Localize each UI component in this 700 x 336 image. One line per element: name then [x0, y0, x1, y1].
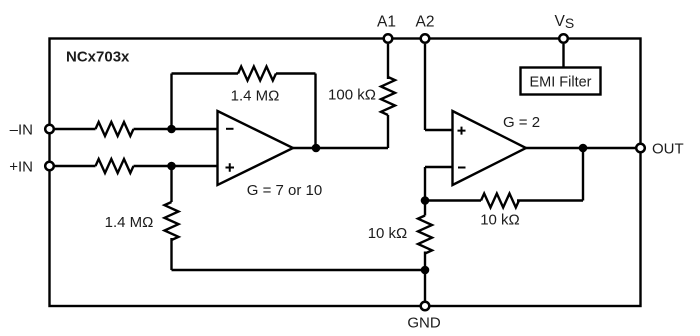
op-amp 1 minus pin mark — [226, 128, 234, 130]
svg-text:1.4 MΩ: 1.4 MΩ — [105, 214, 154, 231]
op-amp 1 (G = 7 or 10) — [218, 111, 294, 185]
resistor R-IN+ (unlabeled, +IN series) — [96, 159, 134, 173]
wire feedback riser to output — [582, 148, 584, 201]
svg-text:EMI Filter: EMI Filter — [529, 75, 591, 91]
resistor 10 kOhm (vertical, to ground) — [418, 216, 432, 254]
resistor R-IN- (unlabeled, -IN series) — [96, 122, 134, 136]
junction node op-amp 2 output — [579, 144, 588, 153]
svg-text:10 kΩ: 10 kΩ — [480, 212, 520, 229]
wire feedback node to 10k vertical top lead — [424, 201, 426, 216]
terminal A1 — [384, 34, 393, 43]
wire feedback top right segment — [276, 72, 316, 74]
terminal OUT — [636, 144, 645, 153]
wire bottom run to ground node — [172, 269, 426, 271]
svg-text:10 kΩ: 10 kΩ — [368, 225, 408, 242]
terminal GND — [421, 302, 430, 311]
wire feedback top left segment — [172, 72, 239, 74]
resistor 1.4 MOhm feedback (top) — [238, 67, 276, 81]
svg-text:OUT: OUT — [652, 141, 684, 158]
wire feedback drop to op-amp 1 output node — [314, 74, 316, 149]
svg-text:G = 2: G = 2 — [503, 114, 540, 131]
svg-text:GND: GND — [407, 315, 441, 332]
wire op-amp 2 output to OUT terminal — [526, 147, 636, 149]
svg-text:VS: VS — [555, 13, 575, 31]
resistor 10 kOhm (horizontal, feedback) — [481, 194, 519, 208]
wire inverting input drop to feedback node — [424, 167, 426, 201]
resistor 100 kOhm (vertical) — [381, 77, 395, 115]
junction node ground bus — [421, 266, 430, 275]
svg-text:G = 7 or 10: G = 7 or 10 — [247, 182, 322, 199]
wire feedback riser from -IN node — [170, 74, 172, 130]
svg-text:–IN: –IN — [10, 121, 33, 138]
wire A2 to op-amp 2 non-inverting input — [425, 129, 453, 131]
wire +IN input row — [54, 165, 96, 167]
svg-text:A1: A1 — [377, 14, 396, 31]
op-amp 1 plus pin mark — [226, 163, 235, 172]
svg-text:A2: A2 — [416, 14, 435, 31]
terminal A2 — [421, 34, 430, 43]
op-amp 2 plus pin mark — [458, 127, 466, 135]
wire 10k vertical bottom lead — [424, 252, 426, 271]
svg-text:+IN: +IN — [9, 158, 33, 175]
wire 100k upper lead to A1 terminal — [387, 44, 389, 79]
terminal +IN — [45, 162, 54, 171]
svg-text:NCx703x: NCx703x — [66, 49, 130, 66]
wire -IN input row — [54, 128, 96, 130]
wire op-amp 1 output to 100k bottom — [293, 147, 388, 149]
wire -IN node to op-amp 1 inverting input — [134, 128, 218, 130]
terminal VS — [559, 34, 568, 43]
wire VS drop to EMI filter — [562, 44, 564, 68]
wire op-amp 2 inverting input stub — [425, 166, 453, 168]
junction node at -IN / feedback — [167, 125, 176, 134]
wire +IN node to op-amp 1 non-inverting input — [134, 165, 218, 167]
junction node op-amp 2 feedback — [421, 196, 430, 205]
resistor 1.4 MOhm gain (vertical) — [165, 202, 179, 240]
wire feedback node to 10k horizontal left lead — [425, 199, 481, 201]
device boundary box NCx703x — [50, 39, 641, 307]
junction node op-amp 1 output — [312, 144, 321, 153]
svg-text:100 kΩ: 100 kΩ — [328, 87, 376, 104]
wire gain resistor bottom lead — [170, 238, 172, 270]
wire gain resistor drop from +IN node — [170, 166, 172, 202]
terminal -IN — [45, 125, 54, 134]
svg-text:1.4 MΩ: 1.4 MΩ — [231, 88, 280, 105]
wire 10k horizontal right lead — [517, 199, 583, 201]
wire 100k lower lead — [387, 115, 389, 148]
EMI Filter block — [521, 68, 601, 95]
junction node at +IN / gain resistor — [167, 162, 176, 171]
op-amp 2 minus pin mark — [458, 167, 466, 169]
op-amp 2 (G = 2) — [453, 111, 527, 185]
wire ground node drop to GND terminal — [424, 270, 426, 301]
wire A2 drop — [424, 44, 426, 130]
